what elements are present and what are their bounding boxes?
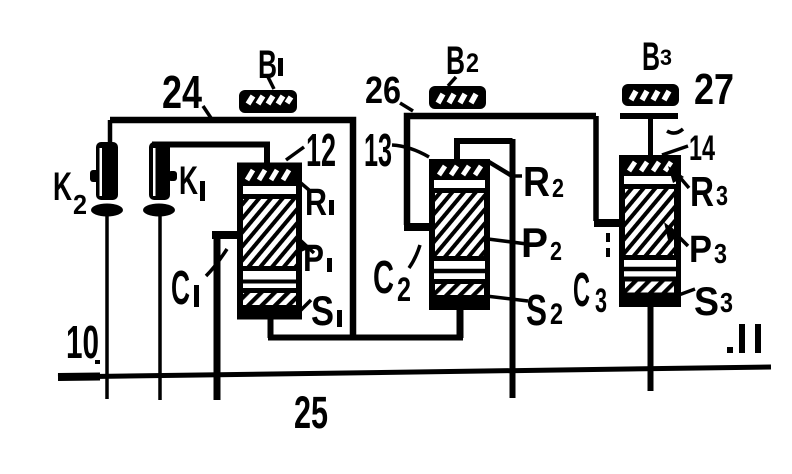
svg-text:3: 3 <box>660 45 672 70</box>
svg-text:R: R <box>690 168 714 215</box>
svg-text:2: 2 <box>550 298 563 331</box>
svg-text:K: K <box>179 159 198 203</box>
svg-text:3: 3 <box>714 238 727 269</box>
svg-text:S: S <box>694 280 719 324</box>
svg-text:2: 2 <box>466 48 479 78</box>
svg-text:14: 14 <box>689 129 715 168</box>
svg-text:B: B <box>446 39 465 83</box>
svg-text:S: S <box>311 287 334 334</box>
svg-text:3: 3 <box>716 180 728 211</box>
svg-text:K: K <box>53 165 72 209</box>
svg-text:C: C <box>373 251 394 303</box>
svg-text:B: B <box>642 35 660 79</box>
svg-text:26: 26 <box>365 70 401 112</box>
svg-text:P: P <box>521 219 548 266</box>
svg-text:24: 24 <box>162 66 202 118</box>
svg-text:10: 10 <box>66 316 99 368</box>
svg-text:R: R <box>523 158 550 205</box>
svg-text:C: C <box>573 264 590 317</box>
svg-text:2: 2 <box>550 236 562 266</box>
svg-text:3: 3 <box>720 287 733 318</box>
svg-text:2: 2 <box>397 271 411 309</box>
svg-text:C: C <box>171 262 190 315</box>
svg-text:P: P <box>689 229 712 271</box>
svg-text:P: P <box>303 238 324 280</box>
svg-text:27: 27 <box>694 65 734 114</box>
svg-text:S: S <box>526 286 547 335</box>
svg-text:R: R <box>305 182 327 224</box>
svg-text:B: B <box>258 43 277 87</box>
svg-text:13: 13 <box>364 124 392 176</box>
svg-text:25: 25 <box>294 387 328 438</box>
svg-text:12: 12 <box>306 124 336 176</box>
svg-text:2: 2 <box>73 189 87 220</box>
svg-text:2: 2 <box>552 173 564 203</box>
svg-text:3: 3 <box>595 282 607 320</box>
